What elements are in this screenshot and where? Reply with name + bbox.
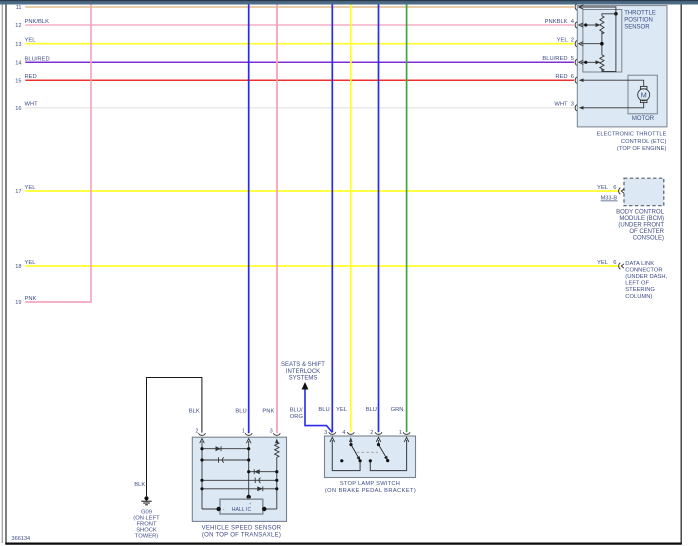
pin 5 wiper line xyxy=(581,61,597,63)
wire 11 inner path to TPS top xyxy=(579,7,616,14)
svg-text:BLU: BLU xyxy=(318,407,329,413)
svg-text:ORG: ORG xyxy=(290,414,304,420)
svg-text:3: 3 xyxy=(324,430,327,436)
svg-text:6: 6 xyxy=(613,185,616,191)
svg-text:GRN: GRN xyxy=(391,407,404,413)
vertical wire BLU to stop lamp pin 3 xyxy=(331,5,333,433)
svg-text:YEL: YEL xyxy=(597,260,609,266)
svg-text:YEL: YEL xyxy=(336,407,348,413)
svg-text:4: 4 xyxy=(342,430,345,436)
svg-text:2: 2 xyxy=(195,428,198,434)
vertical wire GRN to stop lamp pin 1 xyxy=(406,5,408,433)
svg-text:THROTTLE: THROTTLE xyxy=(624,11,656,17)
svg-text:18: 18 xyxy=(15,264,21,270)
pin 4 wiper line xyxy=(581,24,597,26)
diode D1 row xyxy=(202,448,249,450)
svg-text:BLU: BLU xyxy=(235,408,246,414)
svg-text:STEERING: STEERING xyxy=(625,287,655,293)
potentiometer R2 xyxy=(600,55,604,71)
svg-text:BLU/RED: BLU/RED xyxy=(25,56,50,62)
svg-text:(ON BRAKE PEDAL BRACKET): (ON BRAKE PEDAL BRACKET) xyxy=(325,488,416,494)
svg-text:13: 13 xyxy=(15,42,21,48)
wire 18 YEL horizontal to DLC xyxy=(25,265,619,267)
svg-text:2: 2 xyxy=(370,430,373,436)
vertical wire YEL to stop lamp pin 4 xyxy=(350,5,352,433)
hall IC left link xyxy=(202,508,219,510)
svg-text:6: 6 xyxy=(613,260,616,266)
svg-text:PNKBLK 4: PNKBLK 4 xyxy=(545,19,575,25)
svg-text:PNK: PNK xyxy=(262,408,274,414)
svg-text:SYSTEMS: SYSTEMS xyxy=(289,375,318,381)
unused contact xyxy=(340,459,343,462)
svg-text:1: 1 xyxy=(399,430,402,436)
node dot TPS top xyxy=(614,12,618,16)
svg-text:POSITION: POSITION xyxy=(624,18,653,24)
svg-text:12: 12 xyxy=(15,23,21,29)
wire 15 RED horizontal xyxy=(25,79,574,81)
svg-text:INTERLOCK: INTERLOCK xyxy=(286,369,320,375)
switch SW2 blade xyxy=(379,445,387,458)
svg-text:16: 16 xyxy=(15,106,21,112)
svg-text:CONSOLE): CONSOLE) xyxy=(633,236,664,242)
VSS pin1 rail xyxy=(248,441,250,497)
svg-text:TOWER): TOWER) xyxy=(135,533,158,539)
svg-text:RED 6: RED 6 xyxy=(555,74,574,80)
svg-text:14: 14 xyxy=(15,61,21,67)
svg-text:HALL IC: HALL IC xyxy=(232,507,252,513)
wire 13 YEL horizontal xyxy=(25,43,574,45)
wire 19 PNK horizontal with vertical riser xyxy=(25,5,91,303)
hall IC box xyxy=(220,499,263,514)
connector pin (wire 11) at ETC xyxy=(575,4,577,10)
svg-text:PNK: PNK xyxy=(25,296,37,302)
TPS right rail xyxy=(602,14,616,72)
diode D3 row xyxy=(202,488,277,490)
svg-text:VEHICLE SPEED SENSOR: VEHICLE SPEED SENSOR xyxy=(202,526,282,532)
svg-text:YEL: YEL xyxy=(25,260,37,266)
svg-text:DATA LINK: DATA LINK xyxy=(625,261,654,267)
ground G09 xyxy=(144,496,148,500)
svg-text:+: + xyxy=(249,502,251,506)
svg-text:366134: 366134 xyxy=(12,536,31,542)
svg-text:YEL 2: YEL 2 xyxy=(557,38,574,44)
diode D2 row xyxy=(249,471,277,473)
hall IC right link xyxy=(264,508,277,510)
wire 16 WHT horizontal xyxy=(25,107,574,109)
switch SW1 common stub xyxy=(350,440,352,445)
resistor R at pin 3 xyxy=(275,441,279,509)
ETC module box xyxy=(577,6,667,127)
pin 1 inner riser xyxy=(370,440,406,471)
TPS top stub xyxy=(602,14,616,16)
svg-text:COLUMN): COLUMN) xyxy=(625,294,652,300)
vertical wire BLU to stop lamp pin 2 xyxy=(378,5,380,433)
svg-text:15: 15 xyxy=(15,78,21,84)
svg-text:OF CENTER: OF CENTER xyxy=(629,229,664,235)
wire 17 YEL horizontal to BCM xyxy=(25,190,619,192)
svg-text:CONTROL (ETC): CONTROL (ETC) xyxy=(621,139,667,145)
arrow to seats systems xyxy=(302,382,309,390)
svg-text:MOTOR: MOTOR xyxy=(632,116,655,122)
pin 6 wire to motor xyxy=(581,80,644,86)
vertical wire BLU to VSS pin 1 xyxy=(248,5,250,434)
top toolbar bar xyxy=(0,0,698,5)
svg-text:YEL: YEL xyxy=(25,185,37,191)
svg-text:(UNDER FRONT: (UNDER FRONT xyxy=(618,223,664,229)
svg-text:WHT: WHT xyxy=(25,101,39,107)
node dot pin1 to hall xyxy=(247,495,251,499)
vertical wire PNK to VSS pin 3 xyxy=(276,5,278,434)
svg-text:ELECTRONIC THROTTLE: ELECTRONIC THROTTLE xyxy=(596,132,666,138)
svg-text:BLU: BLU xyxy=(366,407,377,413)
svg-text:11: 11 xyxy=(16,5,22,11)
svg-text:MODULE (BCM): MODULE (BCM) xyxy=(619,216,664,222)
capacitor C1 row xyxy=(202,459,249,461)
svg-text:M: M xyxy=(641,90,647,99)
svg-text:19: 19 xyxy=(15,300,21,306)
VSS left rail xyxy=(201,441,203,509)
svg-text:BODY CONTROL: BODY CONTROL xyxy=(616,210,665,216)
TPS mid link xyxy=(601,31,603,55)
svg-text:(UNDER DASH,: (UNDER DASH, xyxy=(625,274,667,280)
svg-text:(ON TOP OF TRANSAXLE): (ON TOP OF TRANSAXLE) xyxy=(202,533,281,539)
svg-text:LEFT OF: LEFT OF xyxy=(625,281,649,287)
svg-text:PNK/BLK: PNK/BLK xyxy=(25,19,50,25)
svg-text:BLK: BLK xyxy=(134,482,145,488)
svg-text:BLU/RED 5: BLU/RED 5 xyxy=(542,56,574,62)
vehicle speed sensor box xyxy=(192,437,286,521)
throttle position sensor box xyxy=(583,10,622,73)
svg-text:STOP LAMP SWITCH: STOP LAMP SWITCH xyxy=(340,481,400,487)
svg-text:BLK: BLK xyxy=(189,408,200,414)
potentiometer R1 xyxy=(600,16,604,34)
BLK wire from VSS pin2 to G09 xyxy=(147,378,202,497)
wire BLU/ORG branch xyxy=(305,390,332,433)
motor M1 xyxy=(640,86,647,89)
wire 12 PNK/BLK horizontal xyxy=(25,24,574,26)
stop lamp switch box xyxy=(325,436,416,478)
svg-text:1: 1 xyxy=(242,428,245,434)
svg-text:17: 17 xyxy=(15,189,21,195)
svg-text:-: - xyxy=(223,507,225,513)
svg-text:SENSOR: SENSOR xyxy=(624,25,650,31)
svg-text:RED: RED xyxy=(25,74,37,80)
motor box xyxy=(628,75,657,114)
svg-text:YEL: YEL xyxy=(25,38,37,44)
pin 3 wire to motor xyxy=(581,103,644,108)
svg-text:SEATS & SHIFT: SEATS & SHIFT xyxy=(281,362,325,368)
svg-text:(TOP OF ENGINE): (TOP OF ENGINE) xyxy=(617,146,667,152)
svg-text:WHT 3: WHT 3 xyxy=(554,102,574,108)
pin 3 inner riser xyxy=(332,440,360,471)
BCM dashed box xyxy=(624,178,664,206)
svg-text:YEL: YEL xyxy=(597,185,609,191)
svg-text:3: 3 xyxy=(270,428,273,434)
mechanical link dashed xyxy=(357,451,378,453)
wire 11 TAN horizontal xyxy=(25,6,574,8)
switch SW2 common stub xyxy=(378,440,380,445)
capacitor C2 row xyxy=(202,479,277,481)
wire 14 BLU/RED horizontal xyxy=(25,61,574,63)
svg-text:CONNECTOR: CONNECTOR xyxy=(625,267,662,273)
svg-text:BLU/: BLU/ xyxy=(290,408,303,414)
pin 2 line to mid node xyxy=(581,43,602,45)
switch SW1 blade xyxy=(351,445,359,458)
